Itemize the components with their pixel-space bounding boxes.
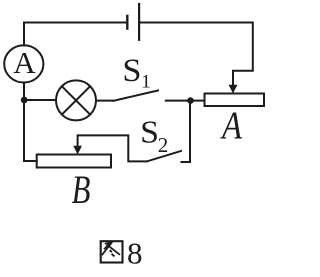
svg-text:A: A <box>220 104 243 147</box>
svg-text:S: S <box>140 115 159 150</box>
svg-text:2: 2 <box>158 133 169 157</box>
svg-text:B: B <box>72 167 91 212</box>
svg-text:1: 1 <box>141 72 151 93</box>
svg-text:S: S <box>122 53 141 89</box>
svg-text:8: 8 <box>127 236 143 271</box>
svg-text:A: A <box>13 45 36 80</box>
